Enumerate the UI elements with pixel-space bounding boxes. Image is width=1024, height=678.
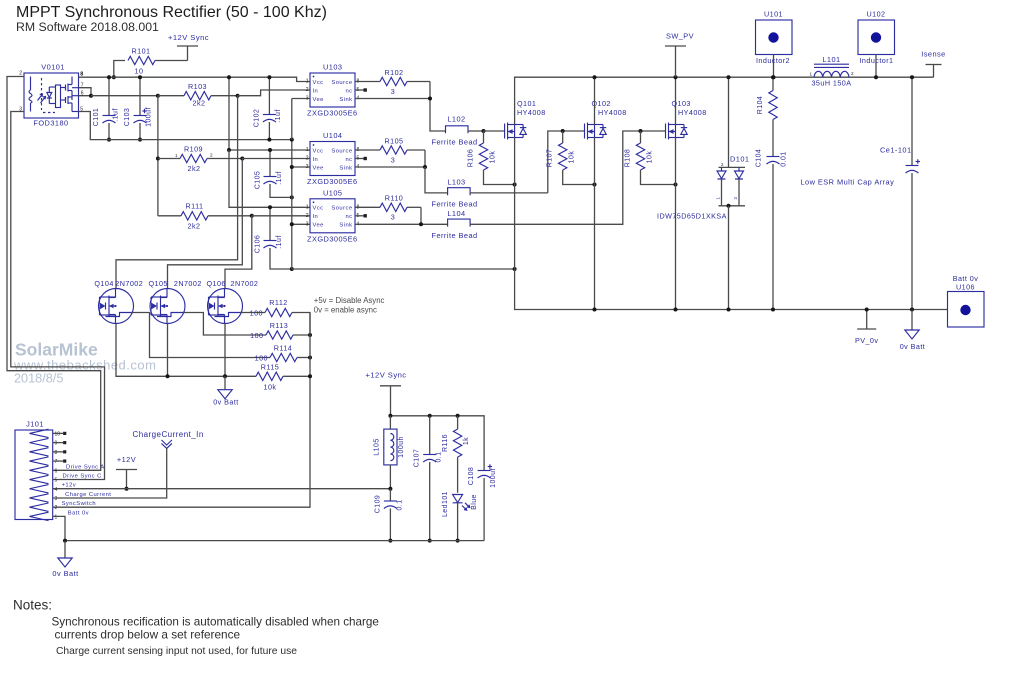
wire R109 out to U104 In [242,158,310,160]
svg-text:D101: D101 [730,155,749,164]
svg-text:R104: R104 [757,96,764,115]
svg-text:1: 1 [306,147,309,153]
wire U103 Vee [292,98,310,100]
svg-text:C107: C107 [414,449,421,468]
svg-text:C103: C103 [124,108,131,127]
gate driver U103 ZXGD3005E6 [310,73,355,107]
capacitor C102 .1uf [268,77,270,114]
wire U101 to rail [773,55,775,78]
svg-text:R116: R116 [442,434,449,452]
svg-text:R110: R110 [385,194,403,203]
svg-text:+12V Sync: +12V Sync [366,371,407,380]
svg-text:ZXGD3005E6: ZXGD3005E6 [307,177,358,186]
svg-text:R102: R102 [385,68,404,77]
svg-text:SW_PV: SW_PV [666,32,694,41]
svg-text:Sink: Sink [339,97,352,103]
svg-text:HY4008: HY4008 [678,108,707,117]
svg-text:U101: U101 [764,10,783,19]
wire +12V Sync stem [390,386,392,416]
svg-text:J101: J101 [26,420,44,429]
wire Vee vertical to 0v bus [291,140,293,269]
resistor R101 [114,61,125,78]
svg-text:0v = enable async: 0v = enable async [314,306,377,315]
resistor R108 10k [636,143,644,170]
svg-text:Batt 0v: Batt 0v [68,510,89,516]
wire U104 sink + R105 to L103 [355,166,425,168]
svg-text:3: 3 [391,213,395,222]
svg-text:Source: Source [331,80,352,86]
resistor R109 2k2 [157,96,159,216]
nc stub U104 [355,158,364,160]
svg-text:HY4008: HY4008 [598,108,627,117]
svg-text:R103: R103 [188,82,207,91]
mosfet Q104 2N7002 [99,289,134,324]
resistor R112 100 [265,308,292,316]
svg-text:0.1: 0.1 [436,451,443,462]
svg-text:3: 3 [306,164,309,170]
wire U105 Vee [292,223,310,225]
wire V0101 pin2 to J101 Drive Sync A [7,77,101,471]
svg-text:R107: R107 [547,149,554,168]
svg-text:0v Batt: 0v Batt [52,569,78,578]
svg-text:100uf: 100uf [490,468,497,488]
capacitor C103 100uf [139,77,141,115]
capacitor C101 .1uf [108,77,110,115]
svg-text:nc: nc [345,214,352,220]
wire V0101 pins 7+6 output junction [79,88,92,96]
gate driver U104 ZXGD3005E6 [310,142,355,176]
svg-text:Q106: Q106 [207,279,226,288]
svg-text:Vcc: Vcc [313,206,324,212]
svg-text:Ferrite Bead: Ferrite Bead [432,200,478,209]
wire ChargeCurrent_In to J101 pin3 [53,448,167,498]
wire Q105 source [167,324,169,377]
svg-text:10: 10 [135,67,144,76]
mosfet Q105 2N7002 [150,289,185,324]
wire L104 to Q103 gate [470,131,665,224]
svg-text:R113: R113 [270,321,288,330]
wire Vee bus [79,112,292,140]
ferrite bead L104 [448,219,471,227]
wire Q101 drain to rail [515,77,934,124]
svg-text:.1uf: .1uf [276,171,283,184]
svg-text:3: 3 [55,496,58,502]
svg-text:3: 3 [306,96,309,102]
svg-text:Blue: Blue [471,494,478,510]
svg-text:1: 1 [55,514,58,520]
svg-text:Drive Sync A: Drive Sync A [66,464,105,470]
svg-text:3: 3 [391,156,395,165]
svg-text:Source: Source [331,206,352,212]
svg-text:HY4008: HY4008 [517,108,546,117]
svg-text:U105: U105 [323,188,342,197]
svg-text:Ferrite Bead: Ferrite Bead [432,231,478,240]
svg-text:ZXGD3005E6: ZXGD3005E6 [307,109,358,118]
svg-text:Low ESR Multi Cap Array: Low ESR Multi Cap Array [801,178,895,187]
resistor R107 10k [559,143,567,170]
ground 0v Batt async [224,376,226,389]
nc stub U105 [355,215,364,217]
svg-text:10k: 10k [647,151,654,164]
svg-text:ChargeCurrent_In: ChargeCurrent_In [133,430,204,439]
capacitor C105 .1uf [269,150,271,177]
resistor R113 100 [266,331,293,339]
resistor R105 3 [355,149,380,151]
wire 0v return bus [292,268,515,270]
svg-text:Sink: Sink [339,165,352,171]
resistor R115 10k [116,324,256,377]
wire async gate bus down [53,313,310,508]
wire output to R103 [91,95,158,97]
svg-text:Q104: Q104 [94,279,113,288]
svg-text:Drive Sync C: Drive Sync C [63,474,102,480]
svg-text:0v Batt: 0v Batt [900,342,926,351]
svg-text:1: 1 [809,72,812,77]
svg-text:.1uf: .1uf [275,109,282,122]
svg-text:C108: C108 [468,467,475,486]
svg-text:L104: L104 [447,209,465,218]
svg-text:R108: R108 [625,149,632,168]
svg-text:10k: 10k [569,151,576,164]
wire U103 sink + R102 to L102 [355,98,430,100]
svg-text:10: 10 [55,431,61,437]
svg-text:10k: 10k [490,151,497,164]
ground 0v Batt right [911,310,913,331]
svg-text:Vee: Vee [313,223,324,229]
connector U106 Batt 0v [948,292,985,328]
svg-text:Charge Current: Charge Current [65,492,111,498]
svg-text:L102: L102 [447,115,465,124]
svg-text:2k2: 2k2 [188,222,201,231]
svg-text:2: 2 [306,213,309,219]
capacitor C107 0.1 [429,416,431,455]
svg-text:Notes:: Notes: [13,598,52,613]
ferrite bead L102 [446,126,469,134]
svg-text:C106: C106 [255,235,262,254]
svg-text:2: 2 [306,156,309,162]
ground 0v Batt J101 [64,541,66,558]
LED Led101 Blue [453,495,463,503]
wire +12V rail from V0101 pin8 to U103 pin1 [79,77,311,81]
svg-text:5: 5 [55,478,58,484]
wire Q101 source down to 0v bus [515,138,948,310]
resistor R110 3 [355,206,380,208]
svg-text:nc: nc [345,88,352,94]
wire 0v batt bottom rail [65,540,484,542]
svg-text:100: 100 [255,354,268,363]
svg-text:2: 2 [19,71,22,77]
capacitor C109 0.1 [389,489,391,501]
svg-text:In: In [313,88,319,94]
svg-text:1: 1 [306,79,309,85]
svg-text:C102: C102 [254,109,261,128]
svg-text:2k2: 2k2 [188,164,201,173]
svg-text:Isense: Isense [921,50,945,59]
svg-text:Vcc: Vcc [313,80,324,86]
svg-text:nc: nc [345,157,352,163]
svg-text:2k2: 2k2 [193,99,206,108]
svg-text:Q103: Q103 [672,99,691,108]
svg-text:R115: R115 [261,363,279,372]
capacitor Ce1-101 Low ESR Multi Cap Array [911,77,913,165]
svg-text:100: 100 [250,331,263,340]
svg-text:Charge current sensing input n: Charge current sensing input not used, f… [56,646,297,657]
svg-text:U103: U103 [323,63,342,72]
stub pins 10-7 J101 [53,432,63,434]
inductor U102 Inductor1 [858,20,895,55]
svg-text:+12v: +12v [62,483,77,489]
wire drive A down to Q104 drain [116,96,238,289]
svg-text:0v Batt: 0v Batt [213,398,239,407]
svg-text:U106: U106 [956,283,975,292]
svg-text:L103: L103 [447,178,465,187]
svg-text:Q105: Q105 [149,279,168,288]
svg-text:100uf: 100uf [146,107,153,127]
resistor R111 2k2 [158,215,181,217]
optocoupler V0101 FOD3180 [24,73,79,118]
svg-text:6: 6 [55,468,58,474]
svg-text:Q101: Q101 [517,99,536,108]
mosfet Q101 HY4008 [504,124,506,139]
svg-text:8: 8 [55,450,58,456]
ground PV_0v [866,310,868,330]
svg-text:7: 7 [55,459,58,465]
svg-text:C105: C105 [255,171,262,190]
svg-text:SolarMike: SolarMike [15,340,98,360]
svg-text:3: 3 [391,87,395,96]
svg-text:.1uf: .1uf [276,235,283,248]
svg-text:currents drop below a set refe: currents drop below a set reference [55,628,241,642]
svg-text:C104: C104 [756,149,763,168]
svg-text:3: 3 [306,221,309,227]
svg-text:R106: R106 [468,149,475,168]
capacitor C104 0.01 [772,120,774,157]
svg-text:V0101: V0101 [41,63,65,72]
resistor R103 2k2 [158,95,184,97]
inductor U101 Inductor2 [756,20,793,55]
svg-text:C101: C101 [93,108,100,127]
svg-text:In: In [313,214,319,220]
ferrite bead L103 [448,188,471,196]
svg-text:Vee: Vee [313,165,324,171]
wire Q106 gate to R112 [240,312,265,314]
svg-text:R101: R101 [132,47,151,56]
nc stub U103 [355,89,364,91]
svg-text:R109: R109 [184,145,203,154]
resistor R102 3 [355,81,380,83]
svg-text:PV_0v: PV_0v [855,336,878,345]
svg-text:FOD3180: FOD3180 [33,119,68,128]
svg-text:100uh: 100uh [398,436,405,458]
svg-text:2018/8/5: 2018/8/5 [14,372,63,386]
wire Q103 drain [675,77,677,124]
wire Q106 source [224,324,226,377]
svg-text:2: 2 [851,71,854,76]
svg-text:1: 1 [716,196,721,199]
svg-text:1: 1 [306,204,309,210]
wire +12v line J101 pin4 to L105 [53,488,391,490]
resistor R116 1k [457,416,459,429]
svg-text:Sink: Sink [339,223,352,229]
wire R103 out to U103 In [238,90,310,96]
svg-text:Source: Source [331,148,352,154]
svg-text:100: 100 [250,309,263,318]
resistor R104 [772,77,774,90]
wire Q104 gate to R114 [131,313,270,358]
svg-text:35uH 150A: 35uH 150A [811,79,851,88]
svg-text:SyncSwitch: SyncSwitch [62,501,96,507]
svg-text:0.1: 0.1 [397,499,404,510]
svg-text:1k: 1k [463,437,470,445]
wire U105 sink + R110 to L104 [355,223,448,225]
svg-text:+5v = Disable Async: +5v = Disable Async [314,296,385,305]
svg-text:10k: 10k [264,383,277,392]
capacitor C108 100uf [478,470,491,472]
svg-text:.1uf: .1uf [113,108,120,121]
resistor R106 10k [479,143,487,170]
svg-text:R105: R105 [385,137,404,146]
resistor R114 100 [270,353,297,361]
svg-text:0.01: 0.01 [781,151,788,166]
svg-text:3: 3 [733,196,738,199]
capacitor C106 .1uf [269,207,271,240]
svg-text:RM Software 2018.08.001: RM Software 2018.08.001 [16,20,159,34]
svg-text:IDW75D65D1XKSA: IDW75D65D1XKSA [657,212,727,221]
svg-text:4: 4 [55,487,58,493]
svg-text:Vee: Vee [313,97,324,103]
svg-text:R111: R111 [186,202,204,211]
svg-text:Vcc: Vcc [313,148,324,154]
wire U104 Vee [292,166,310,168]
svg-text:U104: U104 [323,131,342,140]
svg-text:1: 1 [175,153,178,158]
svg-text:Led101: Led101 [442,491,449,517]
wire +12V stem [126,470,128,489]
diode D101 IDW75D65D1XKSA [728,77,730,167]
svg-text:2N7002: 2N7002 [115,279,143,288]
svg-text:L105: L105 [374,438,381,455]
svg-text:ZXGD3005E6: ZXGD3005E6 [307,234,358,243]
wire +12V Sync to R101 [155,60,188,62]
wire R111 out to U105 In [252,215,310,217]
svg-text:Ferrite Bead: Ferrite Bead [432,138,478,147]
wire sync filter top rail [390,416,484,470]
svg-text:2: 2 [210,153,213,158]
svg-text:2N7002: 2N7002 [174,279,202,288]
svg-text:2: 2 [55,505,58,511]
svg-text:C109: C109 [375,495,382,514]
svg-text:In: In [313,157,319,163]
wire Vcc bus down to U104/U105 [229,77,310,150]
wire J101 pin1 Batt 0v [53,516,65,540]
svg-text:R112: R112 [269,298,287,307]
wire Q102 source [594,138,596,310]
svg-text:2N7002: 2N7002 [231,279,259,288]
mosfet Q106 2N7002 [208,289,243,324]
wire drive B down to Q105 drain [168,159,243,289]
mosfet Q103 HY4008 [665,124,667,139]
inductor L105 100uh [384,429,397,465]
gate driver U105 ZXGD3005E6 [310,199,355,233]
svg-text:+12V: +12V [117,455,136,464]
svg-text:Ce1-101: Ce1-101 [880,146,912,155]
svg-text:L101: L101 [822,55,840,64]
wire Q103 source [675,138,677,310]
wire V0101 pin3 to J101 Drive Sync C [11,112,105,480]
wire drive C down to Q106 drain [225,216,252,289]
svg-text:9: 9 [55,441,58,447]
wire L103 to Q102 gate [548,131,585,193]
wire Q102 drain [594,77,596,124]
mosfet Q102 HY4008 [584,124,586,139]
svg-text:2: 2 [306,87,309,93]
wire L102 to Q101 gate [484,130,505,132]
svg-text:+12V Sync: +12V Sync [168,33,209,42]
connector J101 [15,430,53,520]
svg-text:R114: R114 [274,344,292,353]
wire Q105 gate to R113 [183,313,266,336]
wire U102 to rail [875,55,877,78]
svg-text:MPPT Synchronous Rectifier (50: MPPT Synchronous Rectifier (50 - 100 Khz… [16,4,327,21]
svg-text:U102: U102 [867,10,886,19]
